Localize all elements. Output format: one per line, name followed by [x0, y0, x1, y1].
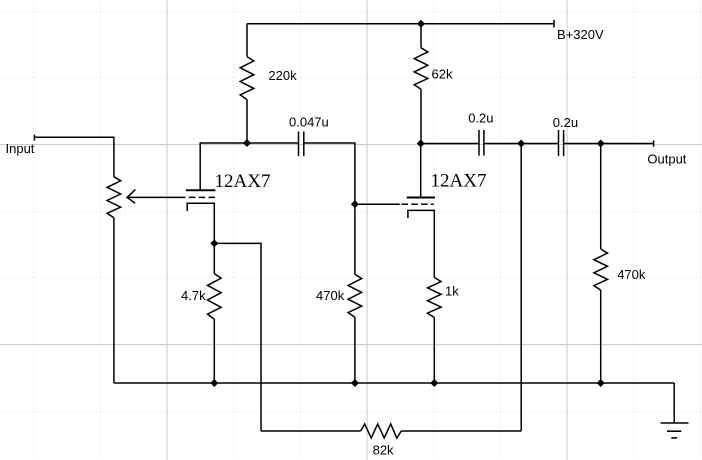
svg-text:12AX7: 12AX7: [431, 170, 487, 191]
svg-text:1k: 1k: [445, 284, 459, 299]
input terminal tick: [33, 135, 35, 141]
node: stage1 plate junction: [243, 139, 251, 147]
svg-text:62k: 62k: [432, 67, 453, 82]
tube U1 grid (dashed): [189, 196, 215, 198]
resistor 220k: [246, 24, 248, 57]
wire grid node to tube2 grid: [355, 203, 400, 205]
tube U2 plate bar: [407, 197, 435, 199]
svg-text:B+320V: B+320V: [557, 27, 604, 42]
capacitor 0.2u (second): [559, 130, 564, 156]
svg-text:82k: 82k: [373, 443, 394, 458]
node: stage2 plate junction: [417, 140, 425, 148]
wire cap 0.047u to grid node of stage2: [304, 143, 355, 204]
ground symbol: [673, 383, 675, 423]
resistor 4.7k: [213, 243, 215, 273]
svg-text:0.2u: 0.2u: [553, 115, 578, 130]
svg-text:4.7k: 4.7k: [181, 288, 206, 303]
svg-text:470k: 470k: [617, 267, 646, 282]
node: stage2 grid junction: [351, 200, 359, 208]
resistor 82k (feedback): [261, 430, 361, 432]
wire stage2 plate to output row: [421, 143, 479, 145]
resistor 470k (stage2 grid leak): [354, 204, 356, 274]
svg-text:Output: Output: [647, 151, 686, 166]
capacitor 0.2u (first): [479, 130, 484, 156]
svg-text:12AX7: 12AX7: [215, 171, 271, 192]
tube U2 cathode: [408, 210, 434, 277]
resistor 62k: [420, 24, 422, 48]
svg-text:0.2u: 0.2u: [468, 111, 493, 126]
wire input: [34, 137, 114, 176]
wire cap1 to feedback node: [484, 143, 558, 145]
tube U2 12AX7 plate lead: [420, 144, 422, 198]
ground rail wire: [114, 382, 674, 384]
tube U1 12AX7 plate bar: [186, 189, 216, 191]
node: stage1 cathode junction: [210, 239, 218, 247]
wire 62k to plate node: [420, 89, 422, 143]
node: B+ rail junction: [417, 20, 425, 28]
tube U2 grid (dashed): [402, 203, 434, 205]
node: feedback takeoff: [517, 140, 525, 148]
node: output junction: [597, 140, 605, 148]
wire pot bottom to ground rail: [113, 218, 115, 383]
potentiometer VR1 body: [107, 177, 121, 218]
output terminal tick: [653, 140, 655, 146]
wire feedback vertical: [520, 144, 522, 432]
wire cathode to feedback drop: [214, 243, 261, 431]
node: 4.7k ground junction: [210, 379, 218, 387]
resistor 470k (output load): [600, 144, 602, 250]
capacitor 0.047u: [299, 132, 304, 157]
node: 1k ground junction: [430, 379, 438, 387]
svg-text:220k: 220k: [268, 68, 297, 83]
tube U1 cathode: [187, 203, 214, 243]
resistor 1k: [428, 278, 442, 318]
svg-text:470k: 470k: [316, 288, 345, 303]
wire stage1 plate node row: [200, 143, 298, 190]
potentiometer wiper arrow: [127, 196, 185, 198]
svg-text:0.047u: 0.047u: [289, 115, 329, 130]
B+ terminal tick: [553, 20, 555, 28]
svg-text:Input: Input: [6, 141, 35, 156]
node: 470k output ground junction: [597, 379, 605, 387]
node: 470k grid-leak ground junction: [351, 379, 359, 387]
wire cap2 to output terminal: [564, 143, 654, 145]
B+ top rail wire: [247, 23, 554, 25]
